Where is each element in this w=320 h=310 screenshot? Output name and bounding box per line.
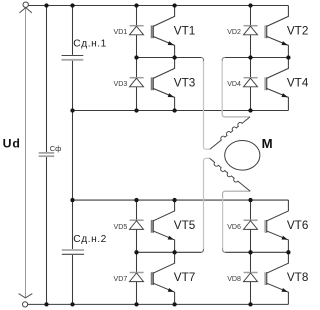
wire diode column VD2 <box>250 6 252 26</box>
diode VD4 <box>244 78 258 87</box>
wire route winding 1 horizontal to x=222 <box>222 110 250 117</box>
wire phase output rail top-left leg <box>137 57 202 59</box>
wire diode column VD7 <box>136 252 138 272</box>
svg-text:VD8: VD8 <box>227 275 241 283</box>
svg-text:VT6: VT6 <box>287 219 308 232</box>
node junction (136.5,5.5) <box>134 3 138 7</box>
svg-text:Сд.н.2: Сд.н.2 <box>73 234 107 245</box>
capacitor Сф <box>39 153 55 156</box>
terminal bottom-left <box>23 302 28 307</box>
transistor VT8 (IGBT) <box>265 252 288 304</box>
node junction (46.5,5.5) <box>44 3 48 7</box>
diode VD1 <box>130 26 144 35</box>
node junction (250.5,252.3) <box>248 250 252 254</box>
wire route corner at right-top leg output <box>222 57 225 61</box>
wire top DC bus <box>28 5 288 7</box>
wire filter bus lower part <box>46 157 48 304</box>
svg-text:M: M <box>262 136 273 151</box>
wire phase output rail top-right leg <box>225 57 289 59</box>
terminal top-left <box>23 2 28 7</box>
wire route riser x=222.6 down to right-bottom leg <box>223 197 226 252</box>
node junction (250.5,5.5) <box>248 3 252 7</box>
svg-text:VD5: VD5 <box>113 223 127 231</box>
capacitor Сд.н.1 <box>62 56 84 60</box>
wire diode column VD6 <box>250 200 252 220</box>
wire diode column VD4 <box>250 58 252 78</box>
diode VD5 <box>130 220 144 229</box>
transistor VT3 (IGBT) <box>151 58 174 111</box>
node junction (72.5,5.5) <box>70 3 74 7</box>
wire neutral rail lower <box>73 199 289 201</box>
svg-text:VT7: VT7 <box>174 271 195 284</box>
transistor VT1 (IGBT) <box>151 6 174 58</box>
svg-text:VT2: VT2 <box>287 24 308 37</box>
node junction (174.6,57.5) <box>172 55 176 59</box>
wire bottom DC bus <box>28 303 289 305</box>
wire phase output rail bottom-right leg <box>225 251 288 253</box>
Ud arrowhead top <box>19 8 32 13</box>
node junction (174.6,5.5) <box>172 3 176 7</box>
node junction (136.5,304.4) <box>134 302 138 306</box>
wire route corner at left-top leg output <box>201 58 204 63</box>
diode VD7 <box>130 273 144 282</box>
node junction (136.5,110.5) <box>134 108 138 112</box>
svg-text:Сд.н.1: Сд.н.1 <box>73 38 107 49</box>
wire divider bus below Сд.н.2 <box>72 255 74 304</box>
svg-text:VT5: VT5 <box>174 219 196 232</box>
wire diode column VD5 <box>136 200 138 220</box>
wire divider bus above Сд.н.1 <box>72 6 74 55</box>
node junction (250.5,304.4) <box>248 302 252 306</box>
wire diode column VD8 <box>250 252 252 272</box>
node junction (72.5,304.4) <box>70 302 74 306</box>
svg-text:VT8: VT8 <box>287 271 308 284</box>
transistor VT2 (IGBT) <box>265 6 288 58</box>
wire route riser x=203.5 up to winding 2 <box>204 158 210 249</box>
wire phase output rail bottom-left leg <box>137 251 202 253</box>
transistor VT7 (IGBT) <box>151 252 174 304</box>
inductor motor winding 1 (upper) <box>208 115 249 149</box>
transistor VT4 (IGBT) <box>265 58 288 111</box>
inductor motor winding 2 (lower) <box>208 158 250 193</box>
wire route corner at left-bottom leg output <box>201 248 204 252</box>
node junction (174.6,304.4) <box>172 302 176 306</box>
transistor VT5 (IGBT) <box>151 200 174 252</box>
wire diode column VD3 <box>136 58 138 78</box>
svg-text:Сф: Сф <box>50 144 62 153</box>
wire route riser x=203.5 down to winding 1 <box>204 61 210 149</box>
node junction (250.5,200.05) <box>248 198 252 202</box>
svg-text:VT3: VT3 <box>174 76 195 89</box>
node junction (174.6,200.05) <box>172 198 176 202</box>
diode VD8 <box>244 273 258 282</box>
node junction (288.4,57.5) <box>286 55 290 59</box>
wire divider bus middle section <box>72 61 74 250</box>
motor M <box>225 141 260 171</box>
wire diode column VD1 <box>136 6 138 26</box>
svg-text:VD7: VD7 <box>113 275 127 283</box>
Ud arrowhead bottom <box>19 294 33 298</box>
capacitor Сд.н.2 <box>62 250 84 254</box>
svg-text:VT4: VT4 <box>287 76 309 89</box>
node junction (250.5,110.5) <box>248 108 252 112</box>
Ud measurement arrow shaft <box>25 8 27 298</box>
node junction (174.6,252.3) <box>172 250 176 254</box>
svg-text:VD1: VD1 <box>113 28 127 36</box>
node junction (288.4,252.3) <box>286 250 290 254</box>
node junction (250.5,57.5) <box>248 55 252 59</box>
node junction (72.5,200.05) <box>70 198 74 202</box>
svg-text:VD4: VD4 <box>227 80 241 88</box>
node junction (136.5,57.5) <box>134 55 138 59</box>
node junction (174.6,110.5) <box>172 108 176 112</box>
wire filter bus upper part <box>46 6 48 153</box>
node junction (46.5,304.4) <box>44 302 48 306</box>
wire route winding 2 horizontal to x=222.6 <box>223 191 251 198</box>
node junction (72.5,110.5) <box>70 108 74 112</box>
wire route riser x=222 up to right-top leg <box>222 57 225 111</box>
diode VD6 <box>244 220 258 229</box>
svg-text:Ud: Ud <box>3 137 21 151</box>
svg-text:VT1: VT1 <box>174 24 195 37</box>
svg-text:VD6: VD6 <box>227 223 241 231</box>
transistor VT6 (IGBT) <box>265 200 288 252</box>
diode VD3 <box>130 78 144 87</box>
svg-text:VD2: VD2 <box>227 28 241 36</box>
wire neutral rail upper <box>73 110 289 112</box>
diode VD2 <box>244 26 258 35</box>
node junction (136.5,252.3) <box>134 250 138 254</box>
wire route corner at right-bottom leg output <box>223 249 226 253</box>
svg-text:VD3: VD3 <box>113 80 127 88</box>
node junction (136.5,200.05) <box>134 198 138 202</box>
